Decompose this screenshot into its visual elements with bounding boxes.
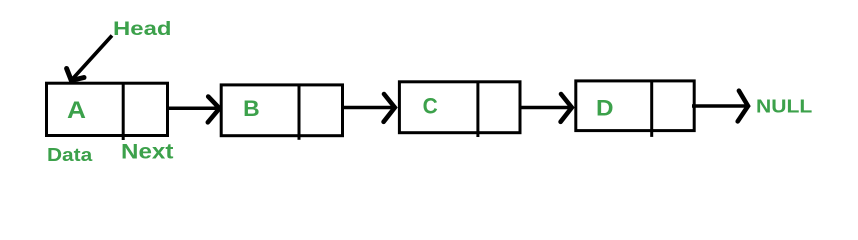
arrow D to NULL shaft bbox=[692, 104, 746, 108]
svg-text:Head: Head bbox=[113, 19, 172, 40]
svg-text:B: B bbox=[243, 96, 260, 121]
arrow B to C shaft bbox=[343, 106, 394, 110]
arrow A to B head bbox=[208, 97, 220, 123]
svg-text:A: A bbox=[67, 97, 86, 124]
arrow C to D shaft bbox=[519, 106, 571, 110]
node D box bbox=[576, 81, 694, 131]
arrow B to C head bbox=[384, 94, 395, 122]
node B divider bbox=[298, 85, 301, 140]
arrow C to D head bbox=[561, 94, 572, 122]
node C divider bbox=[476, 82, 479, 137]
node A box bbox=[47, 83, 168, 135]
svg-text:D: D bbox=[596, 96, 614, 121]
head pointer arrow shaft bbox=[72, 36, 112, 80]
svg-text:Next: Next bbox=[121, 141, 173, 164]
arrow D to NULL head bbox=[738, 91, 748, 122]
node B box bbox=[221, 85, 342, 136]
svg-text:Data: Data bbox=[47, 145, 93, 165]
node A divider bbox=[122, 83, 125, 140]
svg-text:C: C bbox=[423, 94, 438, 119]
node C box bbox=[399, 82, 520, 133]
node D divider bbox=[650, 81, 653, 137]
svg-text:NULL: NULL bbox=[756, 96, 812, 117]
arrow A to B shaft bbox=[166, 107, 218, 111]
head pointer arrowhead bbox=[67, 69, 84, 81]
